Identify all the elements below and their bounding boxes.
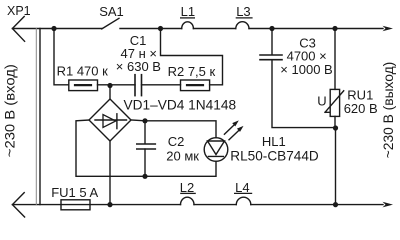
svg-text:RL50-CB744D: RL50-CB744D xyxy=(230,148,319,163)
svg-text:L1: L1 xyxy=(181,4,195,19)
svg-text:× 1000 В: × 1000 В xyxy=(280,62,332,77)
svg-text:HL1: HL1 xyxy=(262,134,286,149)
svg-text:20 мк: 20 мк xyxy=(166,149,199,164)
svg-text:R1 470 к: R1 470 к xyxy=(57,63,109,78)
svg-text:VD1–VD4 1N4148: VD1–VD4 1N4148 xyxy=(124,97,237,112)
svg-text:~230 В (вход): ~230 В (вход) xyxy=(2,64,18,157)
svg-text:L3: L3 xyxy=(236,4,250,19)
svg-text:~230 В (выход): ~230 В (выход) xyxy=(380,62,396,159)
svg-text:620 В: 620 В xyxy=(344,101,378,116)
svg-text:R2 7,5 к: R2 7,5 к xyxy=(168,64,216,79)
svg-text:SA1: SA1 xyxy=(99,4,124,19)
svg-text:U: U xyxy=(317,94,326,109)
svg-text:× 630 В: × 630 В xyxy=(116,59,161,74)
svg-text:XP1: XP1 xyxy=(7,4,31,18)
svg-text:C2: C2 xyxy=(168,134,185,149)
svg-text:4700 ×: 4700 × xyxy=(287,48,327,63)
svg-text:FU1 5 A: FU1 5 A xyxy=(51,185,98,200)
